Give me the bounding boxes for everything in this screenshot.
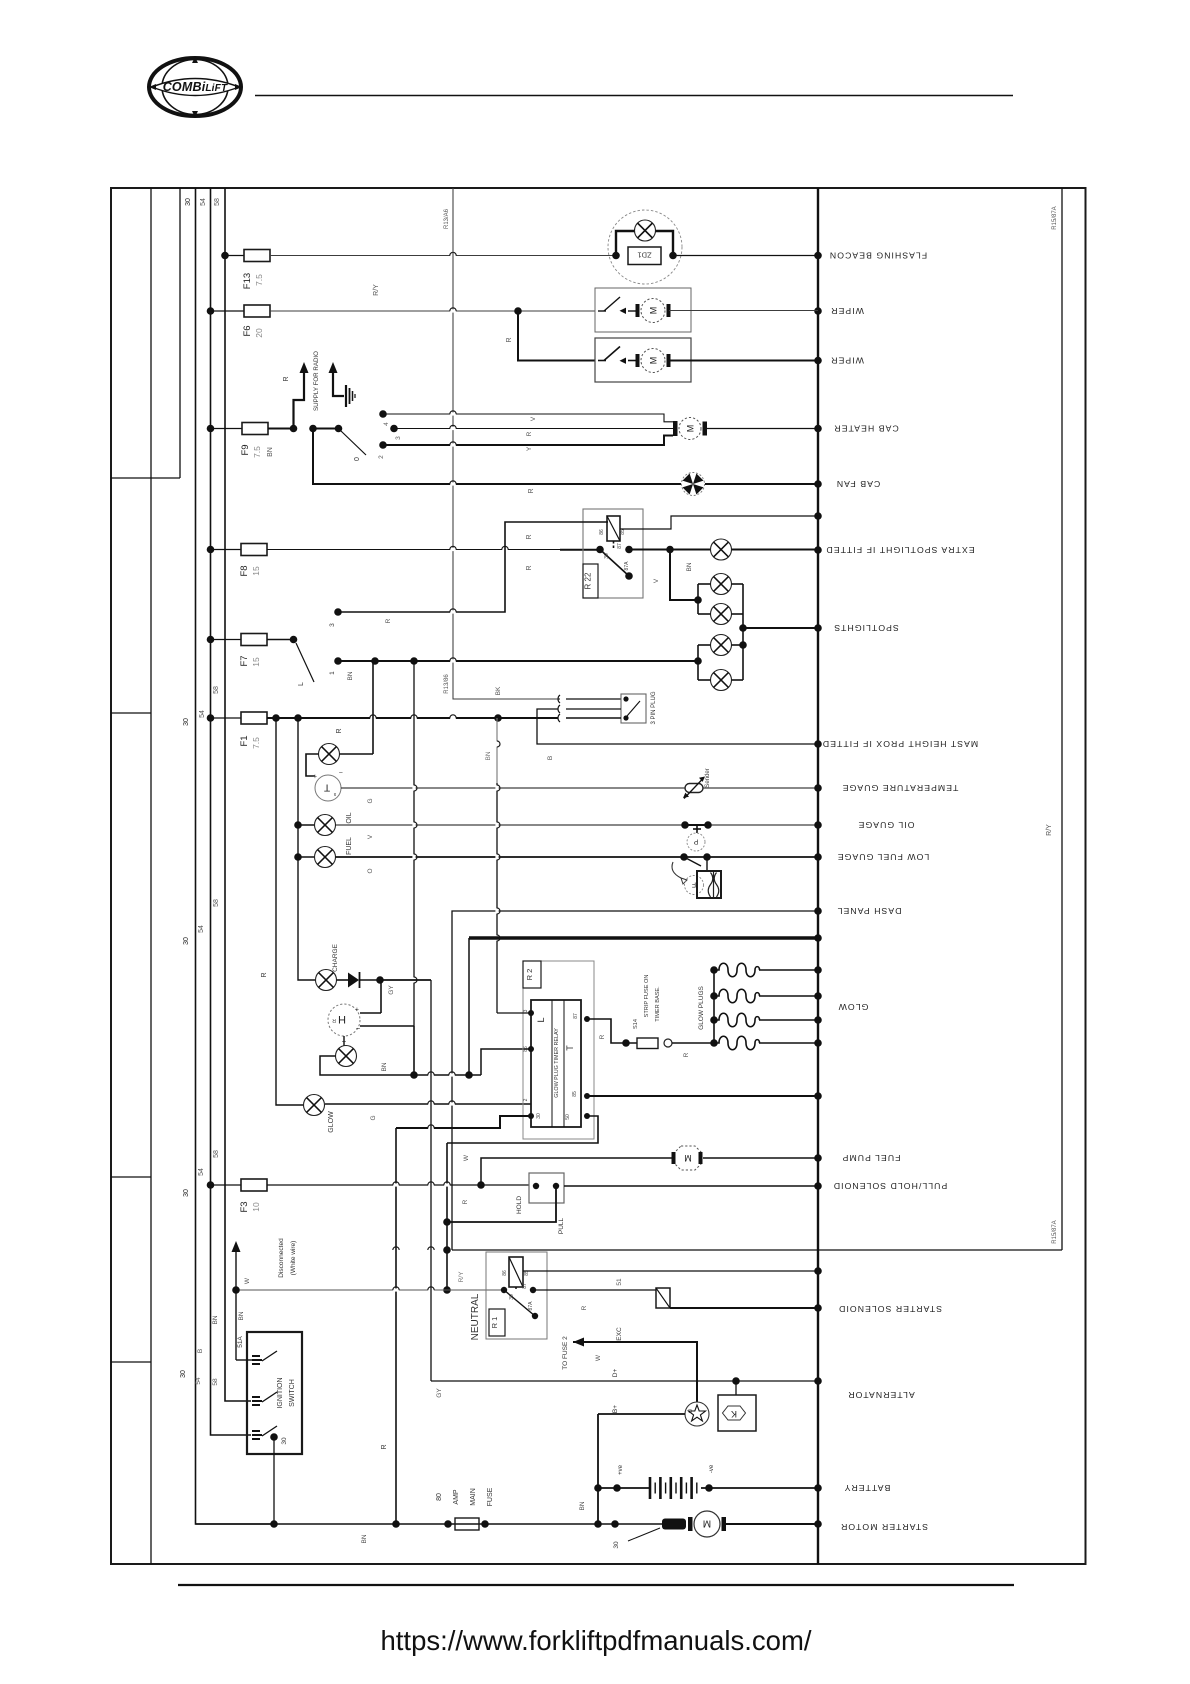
svg-text:FUEL: FUEL (346, 837, 353, 855)
wire R13/A6 vertical (453, 188, 558, 699)
svg-text:M: M (648, 357, 658, 365)
glow plug 1 (714, 963, 818, 977)
svg-text:V: V (653, 578, 660, 583)
svg-text:M: M (703, 1518, 711, 1529)
charge lamp (316, 943, 340, 990)
svg-text:AMP: AMP (453, 1489, 460, 1505)
svg-text:IGNITION: IGNITION (277, 1377, 284, 1408)
wire cab fan (313, 429, 681, 494)
svg-text:DASH PANEL: DASH PANEL (837, 906, 902, 916)
wire GY (380, 980, 431, 995)
svg-text:80: 80 (436, 1493, 443, 1501)
load label STARTER MOTOR (840, 1522, 928, 1532)
svg-text:R/Y: R/Y (458, 1271, 465, 1283)
svg-text:1: 1 (329, 671, 336, 675)
load label GLOW (838, 1002, 869, 1012)
load label DASH PANEL (837, 906, 902, 916)
wire F9 out (268, 425, 297, 433)
main bottom wire (196, 1520, 663, 1543)
svg-text:STRIP FUSE ON: STRIP FUSE ON (644, 975, 650, 1018)
svg-text:BN: BN (361, 1534, 368, 1543)
svg-text:58: 58 (213, 899, 220, 907)
wire charge feed (261, 718, 316, 980)
load label ALTERNATOR (847, 1390, 914, 1400)
bus labels top (185, 198, 221, 206)
wire F8 to relay (267, 546, 600, 570)
wire plug bottom (566, 717, 621, 719)
glow supply bar (469, 936, 818, 940)
wire riser x447 (443, 1143, 465, 1294)
svg-text:SPOTLIGHTS: SPOTLIGHTS (833, 623, 899, 633)
fuse F9 (207, 423, 274, 458)
load label STARTER SOLENOID (838, 1304, 942, 1314)
spotlight right rail (739, 584, 747, 680)
load label MAST HEIGHT PROX IF FITTED (822, 739, 978, 749)
bus labels bottom (180, 1315, 219, 1385)
svg-text:R: R (599, 1034, 606, 1039)
svg-text:+ve: +ve (618, 1464, 624, 1475)
svg-text:87: 87 (573, 1013, 579, 1019)
svg-text:30: 30 (183, 937, 190, 945)
svg-text:F13: F13 (242, 273, 253, 289)
hold pull box (516, 1173, 565, 1234)
svg-text:BN: BN (212, 1315, 219, 1324)
svg-text:WIPER: WIPER (830, 356, 864, 366)
alternator K box (718, 1395, 756, 1431)
svg-text:R: R (526, 565, 533, 570)
svg-text:86: 86 (502, 1270, 508, 1276)
radio supply arrow R (283, 362, 309, 429)
svg-text:30: 30 (180, 1370, 187, 1378)
glow plug 4 (714, 1036, 818, 1050)
temperature sender (683, 768, 711, 798)
wire extra spotlight to bus (732, 549, 819, 551)
svg-text:B: B (547, 756, 554, 760)
svg-text:CHARGE: CHARGE (332, 943, 339, 971)
wire R22 coil85 to bus (620, 516, 818, 529)
relay R22 label (583, 564, 598, 598)
relay R2 pins (528, 1010, 590, 1119)
ignition contact 2 (252, 1392, 277, 1405)
svg-text:GY: GY (388, 985, 395, 995)
svg-text:EXC: EXC (616, 1327, 623, 1341)
oil lamp (294, 812, 353, 835)
svg-text:10: 10 (251, 1202, 261, 1212)
svg-text:R 1: R 1 (490, 1317, 499, 1329)
svg-text:BN: BN (485, 751, 492, 760)
wiper motor 2 (598, 347, 671, 373)
wire BN lamp (320, 1056, 481, 1079)
svg-text:BN: BN (238, 1311, 245, 1320)
svg-text:54: 54 (200, 198, 207, 206)
load label FUEL PUMP (842, 1153, 901, 1163)
svg-text:OIL GUAGE: OIL GUAGE (858, 820, 915, 830)
wire hour meter plus (360, 980, 381, 1013)
svg-text:TO FUSE 2: TO FUSE 2 (562, 1336, 569, 1370)
wire F13 to beacon (270, 252, 616, 296)
wire heater to bus (707, 428, 818, 430)
svg-text:HOLD: HOLD (516, 1196, 523, 1214)
svg-text:W: W (595, 1354, 602, 1361)
svg-text:OIL: OIL (346, 812, 353, 823)
wire neutral common (232, 1286, 504, 1294)
ignition contact 3 (252, 1426, 288, 1524)
svg-text:54: 54 (199, 710, 206, 718)
label R/Y right (1046, 824, 1053, 836)
svg-text:L: L (536, 1017, 546, 1022)
footer url (381, 1625, 812, 1656)
wire spotlights to bus (743, 627, 818, 629)
wire hour meter minus (341, 1026, 414, 1075)
svg-text:BN: BN (381, 1062, 388, 1071)
svg-text:GY: GY (436, 1388, 443, 1398)
svg-text:F3: F3 (239, 1201, 250, 1212)
wire wiper1 to bus (669, 310, 818, 312)
svg-text:NEUTRAL: NEUTRAL (470, 1293, 481, 1340)
wiper motor 2 box (595, 338, 691, 382)
glow plugs rail (698, 966, 718, 1047)
F1 lamp (306, 744, 373, 777)
svg-text:G: G (370, 1115, 377, 1120)
svg-text:58: 58 (214, 198, 221, 206)
relay R22 contact (596, 541, 633, 580)
svg-text:87: 87 (522, 1283, 528, 1289)
svg-text:58: 58 (213, 1150, 220, 1158)
plug connector gaps (558, 695, 560, 722)
svg-text:B: B (197, 1349, 204, 1353)
wire relay pin3 feed (497, 1012, 531, 1014)
ignition switch box (247, 1332, 302, 1454)
wire starter to bus (726, 1523, 818, 1525)
svg-text:85: 85 (572, 1091, 578, 1097)
svg-text:30: 30 (613, 1541, 620, 1549)
svg-text:15: 15 (251, 566, 261, 576)
svg-text:https://www.forkliftpdfmanuals: https://www.forkliftpdfmanuals.com/ (381, 1625, 812, 1656)
wire plug middle to mast prox (537, 709, 818, 760)
svg-text:COMBiLiFT: COMBiLiFT (163, 80, 228, 94)
svg-text:R/Y: R/Y (1046, 824, 1053, 836)
temperature gauge (313, 768, 343, 801)
wire relay pin50 (447, 1116, 598, 1143)
bus 54 (211, 188, 252, 1435)
svg-text:T: T (324, 781, 330, 792)
left margin line (150, 188, 152, 1564)
svg-text:EXTRA SPOTLIGHT IF FITTED: EXTRA SPOTLIGHT IF FITTED (825, 545, 974, 555)
svg-text:BN: BN (267, 447, 274, 457)
wire spotlight drop (653, 550, 698, 601)
relay R1 contact (501, 1283, 538, 1319)
svg-text:V: V (367, 834, 374, 839)
svg-text:30: 30 (183, 718, 190, 726)
svg-text:WIPER: WIPER (830, 306, 864, 316)
svg-text:−: − (355, 1024, 360, 1033)
svg-text:BN: BN (347, 671, 354, 680)
svg-text:F: F (692, 881, 696, 888)
svg-text:GLOW: GLOW (328, 1111, 335, 1133)
relay R22 box (583, 509, 643, 598)
hour meter (328, 1004, 360, 1036)
svg-text:+: + (313, 772, 317, 779)
svg-text:M: M (684, 1153, 692, 1163)
svg-text:TEMPERATURE GUAGE: TEMPERATURE GUAGE (842, 783, 959, 793)
svg-text:2: 2 (378, 455, 385, 459)
beacon outer circle (608, 210, 682, 284)
wire cab fan to bus (705, 483, 818, 485)
svg-text:R13/A6: R13/A6 (444, 208, 450, 229)
wire beacon to bus (673, 255, 818, 257)
fuel sender (672, 853, 721, 898)
svg-text:FUSE: FUSE (487, 1487, 494, 1506)
wire heater V (383, 411, 673, 422)
beacon ZD1 box (612, 247, 677, 265)
spotlight lamp pair upper (694, 574, 743, 625)
wire R1 87 to solenoid (533, 1290, 656, 1310)
wire R13/86 to plug (444, 674, 621, 699)
svg-text:+: + (355, 1005, 359, 1012)
wire to fuse 2 (562, 1327, 697, 1402)
svg-text:86: 86 (599, 529, 605, 535)
charge diode (337, 972, 384, 988)
margin divider 2 (111, 712, 151, 714)
svg-text:R: R (283, 376, 290, 381)
svg-text:54: 54 (198, 925, 205, 933)
wire relay pin30 (396, 1116, 531, 1130)
svg-text:30: 30 (536, 1113, 542, 1119)
fuse F6 (207, 305, 270, 338)
svg-text:R: R (332, 1017, 336, 1023)
left margin second line (179, 188, 181, 478)
wire F3 run (267, 1181, 529, 1204)
load label CAB FAN (836, 479, 881, 489)
wire R riser x396 (381, 1128, 396, 1524)
svg-text:51A: 51A (237, 1336, 244, 1348)
wire R/Y run (393, 1247, 1062, 1252)
beacon lamp leads (616, 231, 673, 256)
load label BATTERY (844, 1483, 891, 1493)
svg-text:Sender: Sender (705, 768, 711, 787)
svg-text:R: R (462, 1199, 469, 1204)
wire wiper2 feed (506, 311, 595, 361)
label R15/87A bottom (1052, 1220, 1058, 1243)
fuel pump motor (672, 1146, 703, 1170)
svg-text:SWITCH: SWITCH (289, 1379, 296, 1407)
fuse F7 (207, 634, 267, 667)
svg-text:R: R (526, 431, 533, 436)
svg-text:CAB FAN: CAB FAN (836, 479, 881, 489)
bus labels mid1 (183, 686, 220, 726)
spotlight switch (267, 636, 314, 686)
svg-text:O: O (367, 868, 374, 873)
wiper motor 1 box (595, 288, 691, 332)
heater motor (673, 418, 707, 440)
svg-text:R: R (528, 488, 535, 493)
load bus junction dots (814, 252, 822, 1528)
svg-text:-ve: -ve (709, 1464, 715, 1473)
label R13/A6 (444, 208, 450, 229)
wire B+ (598, 1405, 685, 1414)
svg-text:30: 30 (604, 553, 610, 559)
glow lamp (276, 718, 335, 1133)
starter motor (688, 1511, 726, 1537)
svg-text:7.5: 7.5 (252, 446, 262, 458)
svg-text:F9: F9 (240, 444, 251, 455)
load label WIPER (830, 356, 864, 366)
svg-text:L: L (298, 682, 305, 686)
load label PULL/HOLD SOLENOID (833, 1181, 948, 1191)
wire starter solenoid to bus (670, 1307, 818, 1309)
svg-text:F6: F6 (242, 325, 253, 336)
load label EXTRA SPOTLIGHT IF FITTED (825, 545, 974, 555)
svg-text:4: 4 (383, 422, 390, 426)
wire F1 run (267, 714, 558, 733)
svg-text:B+: B+ (612, 1405, 619, 1413)
svg-text:7.5: 7.5 (254, 274, 264, 286)
svg-text:V: V (530, 416, 537, 421)
svg-text:87: 87 (617, 543, 623, 549)
wire temperature to bus (341, 788, 818, 804)
load label FLASHING BEACON (829, 251, 927, 261)
svg-text:3 PIN PLUG: 3 PIN PLUG (651, 691, 657, 724)
svg-text:3: 3 (329, 623, 336, 627)
svg-text:T: T (565, 1045, 575, 1051)
svg-text:54: 54 (198, 1168, 205, 1176)
svg-text:SUPPLY FOR RADIO: SUPPLY FOR RADIO (313, 351, 320, 411)
svg-text:FLASHING BEACON: FLASHING BEACON (829, 251, 927, 261)
relay R1 label (470, 1293, 505, 1340)
ground symbol (346, 385, 355, 407)
wire heater Y (383, 436, 673, 452)
load panel bus (817, 188, 819, 1564)
svg-text:2: 2 (523, 1098, 529, 1101)
wire pin86 feed (481, 1049, 531, 1075)
svg-text:W: W (244, 1277, 251, 1284)
svg-text:0: 0 (354, 457, 361, 461)
wire relay pin85 to bus (587, 1095, 818, 1097)
svg-text:51: 51 (616, 1278, 623, 1286)
svg-text:W: W (463, 1154, 470, 1161)
strip fuse S14 (587, 975, 714, 1058)
svg-text:s: s (333, 791, 336, 797)
svg-text:CAB HEATER: CAB HEATER (833, 424, 898, 434)
svg-text:R/Y: R/Y (373, 284, 380, 296)
svg-text:7.5: 7.5 (251, 737, 261, 749)
wire R1 coil85 to bus (523, 1271, 818, 1286)
wire wiper2 to bus (669, 360, 818, 362)
diagram outer border (111, 188, 1086, 1564)
wire terminal3 to R22 coil86 (329, 522, 608, 627)
wire R/Y riser (1061, 188, 1063, 1250)
svg-text:R: R (385, 618, 392, 623)
fuse F8 (207, 544, 267, 577)
wire B+ riser (594, 1414, 602, 1528)
svg-text:15: 15 (251, 657, 261, 667)
main fuse (436, 1487, 494, 1530)
svg-text:ZD1: ZD1 (637, 251, 651, 260)
wire terminal1 to spotlights (329, 657, 702, 680)
load label LOW FUEL GUAGE (837, 852, 930, 862)
wire extra spotlight (629, 546, 711, 572)
svg-text:BATTERY: BATTERY (844, 1483, 891, 1493)
load label WIPER (830, 306, 864, 316)
svg-text:M: M (648, 307, 658, 315)
wire plug middle right (566, 708, 621, 710)
relay R1 coil (502, 1257, 530, 1290)
svg-text:30: 30 (185, 198, 192, 206)
svg-text:F7: F7 (239, 655, 250, 666)
wire glow lamp to relay (325, 1101, 531, 1121)
svg-text:54: 54 (195, 1377, 202, 1385)
load label OIL GUAGE (858, 820, 915, 830)
relay R1 box (486, 1252, 547, 1339)
cab fan symbol (682, 473, 705, 496)
Combilift logo (149, 57, 242, 117)
svg-text:R: R (261, 972, 268, 977)
oil sender (681, 821, 712, 851)
wire glow bar drop (468, 938, 470, 1075)
svg-text:87A: 87A (624, 561, 630, 571)
svg-text:GLOW: GLOW (838, 1002, 869, 1012)
svg-text:(White wire): (White wire) (290, 1241, 297, 1276)
svg-text:58: 58 (213, 686, 220, 694)
fuse F3 (207, 1179, 267, 1213)
bus labels mid2 (183, 899, 220, 945)
svg-text:GLOW PLUGS: GLOW PLUGS (698, 985, 705, 1029)
svg-text:R15/87A: R15/87A (1052, 1220, 1058, 1243)
svg-text:R: R (526, 534, 533, 539)
wire pull drop (447, 1186, 556, 1222)
relay R2 outer box (523, 961, 594, 1139)
starter solenoid coil (656, 1288, 670, 1308)
extra spotlight lamp (711, 539, 732, 560)
svg-text:F1: F1 (239, 735, 250, 746)
battery (579, 1464, 818, 1510)
glow plug 2 (714, 989, 818, 1003)
relay R22 coil (599, 516, 626, 541)
radio ground arrow (329, 362, 345, 396)
wire oil to bus (336, 825, 819, 839)
svg-text:R 22: R 22 (584, 572, 593, 589)
wire heater R (394, 425, 674, 436)
svg-text:R: R (381, 1444, 388, 1449)
svg-text:85: 85 (620, 529, 626, 535)
wire fuel pump (463, 1154, 675, 1186)
wire fuel to bus (336, 857, 819, 874)
label R15/87A top (1052, 206, 1058, 229)
svg-text:PULL: PULL (558, 1217, 565, 1234)
svg-text:STARTER MOTOR: STARTER MOTOR (840, 1522, 928, 1532)
wire F1 lamp riser (372, 661, 374, 754)
disconnected arrow (232, 1238, 298, 1290)
fuse F13 (221, 250, 270, 290)
svg-text:BN: BN (579, 1501, 586, 1510)
svg-text:BK: BK (495, 686, 502, 695)
margin divider 4 (111, 1361, 151, 1363)
hour meter lamp (336, 1036, 357, 1067)
wire ignition feed top (236, 1290, 252, 1360)
svg-text:M: M (685, 425, 695, 433)
fuse F1 (207, 712, 267, 749)
margin divider 3 (111, 1176, 151, 1178)
relay R2 tag (523, 961, 541, 988)
alternator (685, 1402, 709, 1426)
wire gauge riser x413 (412, 661, 417, 1026)
svg-text:R15/87A: R15/87A (1052, 206, 1058, 229)
svg-text:30: 30 (509, 1294, 515, 1300)
wire BN gauge riser (485, 718, 500, 1013)
margin divider 1 (111, 477, 180, 479)
wire F6 to wiper1 (270, 307, 595, 315)
svg-text:MAIN: MAIN (470, 1488, 477, 1506)
